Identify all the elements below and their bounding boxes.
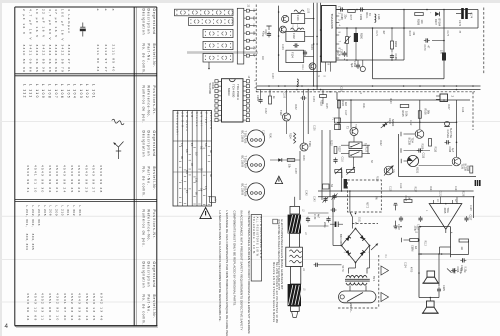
svg-text:AM: AM: [190, 112, 193, 118]
resistor R136: [287, 159, 295, 162]
svg-text:L 104: L 104: [73, 84, 77, 99]
small box y185: [323, 184, 330, 189]
speaker LS2: [427, 301, 435, 307]
capacitor C131: [258, 99, 262, 101]
svg-text:C125: C125: [442, 285, 445, 291]
svg-text:R109: R109: [421, 144, 424, 150]
svg-text:3422 06 36: 3422 06 36: [54, 45, 58, 73]
IF transformer F101: [294, 10, 304, 13]
svg-text:TR 1: TR 1: [372, 276, 375, 282]
arrow connector lower: [381, 293, 389, 302]
svg-text:4543 99 27: 4543 99 27: [92, 165, 96, 193]
svg-text:Désignation: Désignation: [141, 9, 145, 36]
svg-text:R112: R112: [466, 166, 469, 172]
svg-text:4543 13 45: 4543 13 45: [92, 293, 96, 321]
svg-text:L 304: L 304: [78, 206, 82, 217]
switch S6a: [349, 142, 362, 149]
tuner dashed boundary: [255, 5, 257, 92]
svg-text:C134: C134: [312, 96, 314, 102]
svg-text:R163: R163: [408, 31, 410, 37]
dashed vertical x473 upper: [472, 92, 474, 130]
svg-text:C124: C124: [340, 173, 343, 179]
dashed rail y92: [256, 91, 475, 93]
resistor R114 1ohm: [459, 239, 469, 242]
capacitor stub C140: [395, 205, 397, 210]
svg-text:D107: D107: [434, 19, 437, 26]
wire inner y254: [419, 253, 451, 255]
svg-text:3410 80 39: 3410 80 39: [22, 45, 26, 73]
wire tuner bottom: [279, 71, 322, 73]
capacitor C113: [418, 148, 420, 152]
svg-text:T102: T102: [279, 110, 282, 116]
capacitor C172 electrolytic: [461, 8, 464, 19]
svg-text:L 210: L 210: [60, 206, 64, 217]
svg-text:C143: C143: [313, 196, 315, 202]
svg-text:R125: R125: [365, 147, 367, 153]
svg-text:R135: R135: [325, 103, 327, 109]
capacitor C164: [356, 64, 360, 66]
stub below bank S5: [208, 62, 210, 69]
wire box bottom: [419, 297, 439, 299]
svg-text:R162: R162: [394, 41, 397, 48]
svg-text:C150: C150: [340, 87, 342, 93]
resistor R134 zigzag: [294, 133, 296, 144]
capacitor C168: [340, 7, 342, 11]
ferrite rod top cap: [290, 206, 300, 214]
svg-text:R133: R133: [319, 100, 322, 106]
wire right step: [451, 253, 469, 255]
svg-text:AM: AM: [261, 56, 264, 60]
svg-text:22n: 22n: [394, 226, 397, 231]
svg-text:Bestell-Nr.: Bestell-Nr.: [152, 44, 156, 69]
svg-text:L 103: L 103: [79, 84, 83, 99]
transistor T2: [280, 26, 287, 33]
warning triangle small: [275, 176, 282, 183]
resistor R167: [442, 53, 446, 61]
capacitor C122: [399, 217, 403, 219]
capacitor C125: [437, 288, 441, 290]
svg-text:M101: M101: [415, 167, 418, 174]
resistor R112: [470, 166, 473, 173]
ferrite rod lower dark section: [288, 284, 301, 306]
IF transformer F104: [286, 50, 304, 62]
capacitor C127: [464, 217, 468, 219]
svg-text:L 110: L 110: [35, 84, 39, 99]
svg-text:L 209: L 209: [54, 206, 58, 217]
svg-text:R120: R120: [389, 98, 391, 104]
svg-text:TCA4500: TCA4500: [208, 83, 212, 95]
svg-text:TA: TA: [252, 39, 255, 42]
svg-text:4543 99 25: 4543 99 25: [70, 165, 74, 193]
resistor R117: [404, 200, 412, 203]
capacitor C137: [333, 159, 337, 161]
svg-text:TCA 4500: TCA 4500: [232, 84, 236, 98]
diode D107: [435, 12, 439, 16]
svg-text:4541 01 10: 4541 01 10: [33, 165, 37, 193]
junction dots mid rails: [268, 85, 270, 87]
svg-text:No. de comm.: No. de comm.: [141, 44, 145, 75]
svg-text:303, 304: 303, 304: [25, 234, 29, 251]
svg-text:C103: C103: [271, 73, 273, 79]
svg-text:L116: L116: [377, 14, 380, 20]
svg-text:R129: R129: [462, 191, 464, 197]
svg-text:F101: F101: [296, 15, 299, 21]
wire vertical x419.8: [419, 100, 421, 129]
svg-text:Gegenstand: Gegenstand: [152, 262, 156, 288]
legend antenna symbol: [114, 142, 124, 160]
transistor T1: [282, 15, 289, 22]
svg-text:C111: C111: [301, 65, 303, 71]
svg-text:COMPONENTS MUST ONLY BE REPLAC: COMPONENTS MUST ONLY BE REPLACED BY ORIG…: [232, 211, 236, 307]
junction dots rails: [278, 85, 280, 87]
bank connector pins: [244, 10, 247, 12]
svg-text:Numéros de pos.: Numéros de pos.: [141, 86, 145, 124]
svg-text:L 112: L 112: [22, 84, 26, 99]
svg-text:C120: C120: [454, 186, 456, 192]
svg-text:No. de comm.: No. de comm.: [141, 295, 145, 326]
voltage table cell dashes: [179, 145, 181, 147]
svg-text:2 µF 16 V: 2 µF 16 V: [22, 9, 26, 36]
svg-text:4543 99 26: 4543 99 26: [48, 165, 52, 193]
svg-text:4543 96 46: 4543 96 46: [26, 293, 30, 321]
transistor T105: [452, 157, 461, 166]
svg-text:Description: Description: [147, 131, 151, 157]
highlight band through S5: [187, 51, 258, 54]
svg-text:L 107: L 107: [54, 84, 58, 99]
svg-text:M293: M293: [227, 88, 231, 96]
transistor T107: [350, 128, 358, 136]
svg-text:L 202, 302,: L 202, 302,: [31, 206, 35, 228]
svg-text:22n: 22n: [343, 15, 346, 20]
svg-text:C128: C128: [469, 205, 471, 211]
svg-text:R117: R117: [404, 196, 407, 202]
svg-text:R124: R124: [341, 101, 344, 107]
svg-text:1k2: 1k2: [344, 102, 347, 107]
svg-text:UB 9 V: UB 9 V: [180, 112, 183, 128]
svg-text:SICHERHEITSBAUTEILE DÜRFEN NUR: SICHERHEITSBAUTEILE DÜRFEN NUR DURCH ORI…: [247, 211, 251, 335]
wire bridge right down: [369, 246, 371, 269]
wire rail y191: [318, 190, 474, 192]
svg-text:4541 87 60: 4541 87 60: [63, 293, 67, 321]
trimmer capacitor C1: [323, 198, 327, 200]
mains plug and cord: [339, 291, 377, 303]
svg-text:4700: 4700: [410, 267, 412, 273]
diode D103 slanted: [380, 120, 390, 129]
svg-text:4543 99 23: 4543 99 23: [84, 165, 88, 193]
svg-text:L 205: L 205: [43, 206, 47, 217]
svg-text:T108: T108: [354, 124, 356, 130]
svg-text:Désignation: Désignation: [141, 262, 145, 289]
svg-text:C121: C121: [439, 191, 441, 197]
svg-text:Description: Description: [147, 9, 151, 35]
wire vertical x456: [456, 100, 458, 157]
svg-text:4543 93 96: 4543 93 96: [77, 293, 81, 321]
svg-text:C118: C118: [389, 186, 391, 192]
diode D102: [278, 158, 282, 162]
svg-text:L 203, 303: L 203, 303: [37, 206, 41, 227]
svg-text:2112 97 27: 2112 97 27: [104, 45, 108, 73]
svg-text:Numéros de pos.: Numéros de pos.: [141, 210, 145, 248]
IC U201 bottom pins: [325, 62, 327, 72]
wire tuner left rail: [278, 6, 280, 72]
svg-text:a: a: [111, 9, 115, 11]
transistor pinout diagram P2: [247, 155, 264, 172]
resistor tolerance note box: [251, 215, 261, 281]
svg-text:Stereo: Stereo: [195, 112, 198, 128]
svg-text:100: 100: [439, 50, 442, 55]
svg-text:Bestell-Nr.: Bestell-Nr.: [152, 167, 156, 192]
svg-text:a: a: [96, 9, 100, 11]
svg-text:C 30: C 30: [313, 214, 316, 220]
svg-text:FM: FM: [261, 33, 263, 36]
mains dashed box: [348, 180, 382, 212]
capacitor C30: [306, 218, 310, 220]
wire vertical x404: [403, 10, 405, 61]
svg-text:KLINKE: KLINKE: [446, 130, 449, 139]
svg-text:S101: S101: [358, 217, 360, 223]
svg-text:L 106: L 106: [60, 84, 64, 99]
svg-text:C116: C116: [341, 157, 343, 163]
svg-text:3422 85 36: 3422 85 36: [41, 45, 45, 73]
svg-text:Gegenstand: Gegenstand: [152, 131, 156, 157]
svg-text:4543 99 21: 4543 99 21: [55, 165, 59, 193]
connector X3 dark: [475, 180, 481, 186]
svg-text:2111 85 40: 2111 85 40: [111, 45, 115, 73]
svg-text:2µ2: 2µ2: [336, 51, 339, 56]
svg-text:1Ω: 1Ω: [414, 246, 417, 249]
operating voltage note: [273, 219, 278, 224]
wire vertical x372: [372, 28, 374, 79]
wire bridge left: [332, 197, 334, 246]
capacitor C107: [267, 33, 271, 35]
capacitor C170: [425, 38, 427, 42]
svg-text:1Ω: 1Ω: [460, 247, 463, 250]
trimmer R159: [346, 37, 349, 44]
svg-text:C142: C142: [305, 190, 307, 196]
svg-text:R132: R132: [294, 104, 296, 110]
wire box bottom: [373, 78, 445, 80]
voltage table unit box: [210, 197, 216, 203]
svg-text:304, 305: 304, 305: [31, 234, 35, 251]
svg-text:L 302: L 302: [72, 206, 76, 217]
svg-text:0,15µ: 0,15µ: [463, 267, 466, 274]
svg-text:T103: T103: [308, 141, 311, 147]
svg-text:Part-No.: Part-No.: [147, 167, 151, 186]
resistor R133: [320, 95, 327, 98]
IC U101 pins right: [243, 80, 246, 82]
svg-text:3422 27 91: 3422 27 91: [67, 45, 71, 73]
svg-text:L 102: L 102: [85, 84, 89, 99]
capacitor C115: [446, 140, 448, 144]
svg-text:R104: R104: [310, 44, 312, 50]
svg-text:L 109: L 109: [41, 84, 45, 99]
transistor T106 with arrow: [384, 166, 393, 175]
svg-text:BC 238 B: BC 238 B: [240, 156, 244, 168]
wire meter to T105: [419, 165, 453, 167]
svg-text:BY164: BY164: [437, 19, 440, 27]
capacitor C3: [332, 208, 334, 212]
capacitor C110: [294, 43, 296, 47]
svg-text:4543 99 22: 4543 99 22: [77, 165, 81, 193]
resistor R106: [418, 111, 421, 119]
wire amp feedback: [407, 197, 409, 206]
svg-text:115: 115: [185, 170, 188, 175]
IF can core lines: [292, 25, 294, 31]
wire third rail: [336, 59, 404, 61]
svg-text:C105: C105: [283, 93, 285, 99]
resistor R119 dark: [344, 179, 347, 189]
svg-text:Désignation: Désignation: [141, 131, 145, 158]
svg-text:MESURE EN FM STEREO GEGEN MAS: MESURE EN FM STEREO GEGEN MASSE: [272, 262, 275, 322]
wire y160 row: [270, 159, 300, 161]
switch bank output bus: [237, 8, 244, 64]
wires bank pins to tuner: [252, 10, 256, 12]
svg-text:Bestell-Nr.: Bestell-Nr.: [152, 295, 156, 320]
capacitor C121 electrolytic: [335, 222, 337, 228]
svg-text:C112: C112: [409, 120, 411, 126]
resistor R124: [338, 100, 341, 108]
svg-text:L 201, 301,: L 201, 301,: [25, 206, 29, 228]
resistor R110: [429, 139, 432, 147]
volume pot R115: [347, 170, 355, 173]
svg-text:F104: F104: [291, 52, 294, 58]
wire bridge bottom to transformer: [355, 263, 357, 269]
svg-text:3µ3: 3µ3: [350, 63, 353, 68]
legend coil symbol: [111, 119, 124, 125]
svg-text:0,15µ: 0,15µ: [459, 268, 462, 275]
svg-text:V typ.: V typ.: [204, 112, 207, 127]
svg-text:T105: T105: [461, 164, 464, 170]
connector X2: [440, 94, 448, 102]
svg-text:C124: C124: [404, 262, 406, 268]
svg-text:LA SECURITE DANS CE CAS NOUS D: LA SECURITE DANS CE CAS NOUS DECLINONS N…: [218, 211, 222, 322]
svg-text:47 µF 16 V: 47 µF 16 V: [54, 9, 58, 39]
svg-text:C115: C115: [448, 147, 451, 153]
svg-text:No. de comm.: No. de comm.: [141, 167, 145, 198]
capacitor C31: [326, 218, 330, 220]
resistor R162: [391, 41, 394, 49]
svg-text:4552 92 12: 4552 92 12: [85, 293, 89, 321]
svg-text:D103: D103: [388, 118, 391, 124]
IC U101 TCA4500 DIP body: [222, 79, 244, 122]
headphone jack: [445, 121, 450, 126]
svg-text:220p: 220p: [323, 222, 326, 228]
capacitor C133: [302, 96, 304, 100]
svg-text:9V: 9V: [252, 54, 255, 57]
resistor R137: [334, 147, 337, 154]
arrow connector upper: [381, 266, 389, 275]
svg-text:4543 12 69: 4543 12 69: [33, 293, 37, 321]
resistor R113 1ohm: [410, 239, 419, 242]
svg-text:4543 99 28: 4543 99 28: [99, 165, 103, 193]
svg-text:L 206: L 206: [49, 206, 53, 217]
transistor pinout diagram P1: [247, 130, 264, 147]
svg-text:3422 06 08: 3422 06 08: [48, 45, 52, 73]
wire rail y122: [337, 121, 457, 123]
resistor R160: [354, 33, 358, 42]
svg-text:100: 100: [420, 20, 423, 25]
capacitor C163: [342, 52, 346, 54]
svg-text:C171: C171: [375, 31, 377, 37]
wire stubs top right block: [355, 28, 357, 33]
svg-text:R127: R127: [414, 187, 416, 193]
capacitor C128 top right: [452, 268, 454, 272]
svg-text:C174: C174: [470, 13, 472, 19]
svg-text:C119: C119: [399, 183, 401, 189]
wire rail y86: [256, 85, 480, 87]
capacitor C126: [462, 258, 464, 262]
wire inner x439 down: [438, 254, 440, 287]
svg-text:C170: C170: [423, 45, 426, 52]
svg-text:C131: C131: [256, 95, 259, 101]
svg-text:L'ECHANGE DE CES COMPOSANTS PA: L'ECHANGE DE CES COMPOSANTS PAR NON HOMO…: [225, 211, 229, 336]
svg-text:C172: C172: [458, 20, 461, 27]
wire osc cluster: [308, 212, 329, 214]
svg-text:B40 C800: B40 C800: [339, 234, 343, 246]
switch bank S5: [203, 53, 233, 62]
legend electrolytic capacitor symbol: [82, 23, 84, 28]
wire switch to bridge: [349, 191, 351, 212]
svg-text:22 µF 16 V: 22 µF 16 V: [41, 9, 45, 39]
svg-text:Description: Description: [147, 262, 151, 288]
wire amp out: [445, 229, 447, 233]
supply bus lines: [313, 3, 315, 86]
wire top rail: [336, 9, 478, 11]
resistor R105: [400, 105, 409, 108]
svg-text:R110: R110: [434, 147, 437, 153]
wire vertical x444: [443, 10, 445, 79]
mains switch contact: [350, 212, 353, 217]
svg-text:50 Hz: 50 Hz: [341, 266, 344, 273]
trimmer capacitor C2: [332, 195, 336, 197]
svg-text:L105: L105: [306, 8, 308, 14]
svg-text:L 101: L 101: [91, 84, 95, 99]
wire mid verticals: [321, 130, 323, 200]
switch bank S1: [175, 9, 234, 16]
svg-text:C132: C132: [264, 108, 266, 114]
pot R116: [335, 170, 342, 173]
dashed segment y223: [352, 223, 378, 225]
wire rail y197: [318, 196, 474, 198]
output stage box: [418, 227, 420, 298]
transistor pinout diagram P3: [247, 183, 264, 200]
svg-text:R134: R134: [288, 133, 291, 139]
svg-text:4552 83 92: 4552 83 92: [70, 293, 74, 321]
svg-text:C127: C127: [468, 215, 471, 221]
switch bank S2: [189, 18, 234, 26]
IC U101 pins left: [215, 80, 218, 83]
resistor R131: [269, 96, 272, 104]
svg-text:L 108: L 108: [48, 84, 52, 99]
svg-text:6342 13 46: 6342 13 46: [100, 293, 104, 321]
svg-text:R139: R139: [302, 155, 304, 161]
svg-text:F102: F102: [292, 33, 295, 39]
ferrite rod lower cylinder: [290, 267, 300, 284]
svg-text:10 µF 16 V: 10 µF 16 V: [35, 9, 39, 39]
svg-text:C169: C169: [359, 14, 362, 21]
svg-text:R107: R107: [447, 104, 449, 110]
capacitor stub C141: [395, 221, 397, 227]
inductor L114: [297, 79, 298, 87]
svg-text:C138: C138: [294, 168, 296, 174]
svg-text:R168: R168: [416, 19, 419, 26]
capacitor C112: [303, 51, 307, 53]
svg-text:TDA1220B: TDA1220B: [330, 14, 334, 29]
svg-text:FM mono: FM mono: [185, 112, 188, 132]
extra junction dots: [278, 11, 280, 13]
svg-text:mV eff: mV eff: [200, 112, 203, 127]
switch S6b: [349, 151, 362, 158]
